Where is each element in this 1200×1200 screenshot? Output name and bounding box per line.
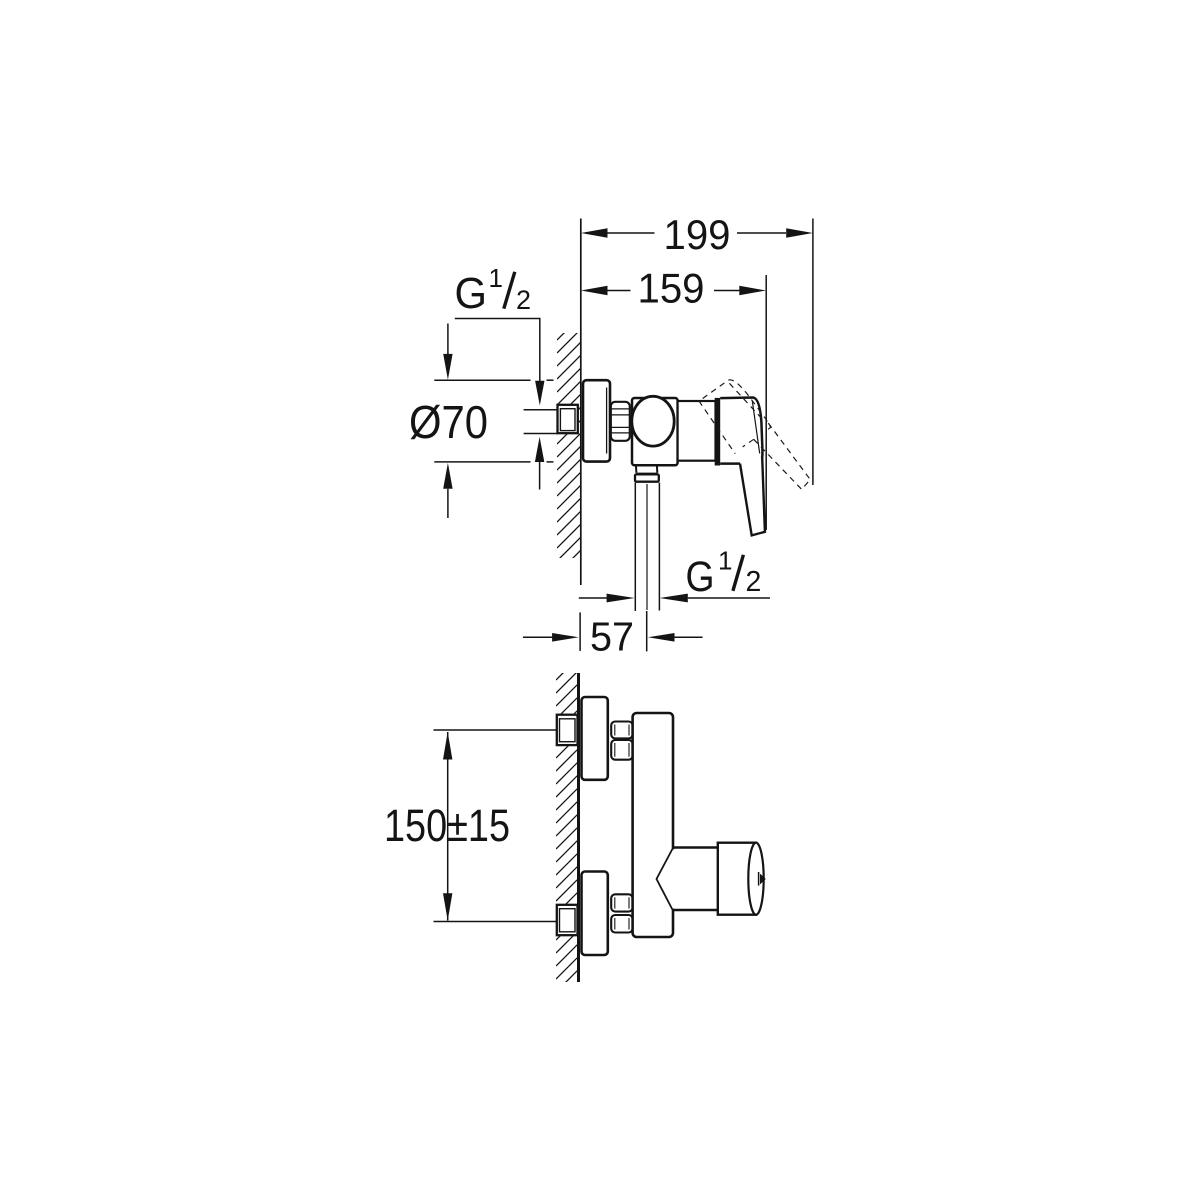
outlet pipe (G1/2 shower hose connection) [634, 483, 636, 611]
dimension 150±15 line [447, 732, 449, 921]
G1/2 arrow up [535, 437, 544, 462]
Ø70 bottom leader line [434, 461, 530, 463]
wall line (bottom view) [577, 673, 580, 982]
wall hatching (bottom view) [556, 659, 577, 1018]
Ø70 top leader line [434, 379, 530, 381]
dimension 199 extension line [812, 219, 814, 486]
mixer body (front) [633, 713, 673, 937]
union nut top facet lines [615, 725, 629, 757]
supply square fitting top [557, 715, 578, 745]
Ø70 lower arrow line [443, 463, 452, 489]
escutcheon flange top (front) [582, 697, 608, 780]
wall line (top view) [580, 219, 582, 586]
dimension G1/2 (outlet) line left [579, 597, 607, 599]
outlet neck [635, 465, 638, 473]
svg-text:G: G [686, 553, 715, 601]
black seal ring band [715, 398, 721, 466]
supply square fitting (top view, behind wall) [558, 405, 578, 433]
dimension 199 arrow left [581, 228, 608, 238]
dimension 199 arrow right [786, 228, 813, 238]
dimension 159 extension line [765, 275, 767, 530]
dimension 57 extension lines [579, 612, 581, 651]
svg-text:57: 57 [590, 614, 634, 660]
supply square fitting bottom [557, 905, 578, 935]
union hex nut (top view) [611, 402, 630, 441]
escutcheon flange bottom (front) [582, 872, 608, 956]
handle cap cylinder (front) [718, 843, 756, 915]
G1/2 leader bracket [455, 319, 540, 382]
ball joint [632, 396, 674, 446]
svg-text:159: 159 [638, 265, 705, 312]
union nut top (front) [611, 722, 632, 760]
dimension 150±15 extension lines [434, 729, 558, 731]
outlet collar nut [635, 474, 659, 481]
handle cap (top view) [720, 398, 762, 464]
svg-text:2: 2 [516, 285, 531, 315]
svg-text:199: 199 [664, 211, 731, 258]
wall hatching (top view) [557, 317, 581, 601]
body opening at neck [670, 849, 679, 908]
union nut bottom (front) [611, 894, 632, 932]
G1/2 arrow down [535, 381, 544, 406]
svg-text:2: 2 [746, 566, 762, 598]
dimension G1/2 (outlet) line right [660, 594, 688, 603]
ghost handle (open position, dashed) [699, 374, 812, 509]
svg-text:1: 1 [718, 545, 732, 575]
dimension 199 line [607, 232, 655, 234]
svg-text:150±15: 150±15 [384, 800, 510, 851]
lever marker on end face [758, 872, 760, 886]
cartridge neck (front) [673, 848, 718, 911]
dimension 159 arrow right [739, 286, 766, 296]
Ø70 upper arrow line [447, 324, 449, 355]
union nut bottom facet lines [615, 897, 629, 929]
wall escutcheon flange (top view) [583, 380, 610, 461]
svg-text:G: G [455, 269, 488, 318]
dimension 159 arrow left [581, 286, 608, 296]
handle lever (closed position) [740, 458, 765, 536]
svg-text:Ø70: Ø70 [409, 396, 488, 448]
G1/2 lower tail [539, 462, 541, 490]
dimension 57 line [523, 636, 553, 638]
svg-text:1: 1 [489, 263, 503, 293]
cartridge housing section [678, 401, 716, 461]
cone transition chevron [657, 849, 673, 910]
dimension 159 line [607, 290, 631, 292]
supply pipe stub (behind wall) [524, 409, 558, 411]
mixer body (top view) [632, 398, 678, 465]
handle cap end face ellipse [748, 843, 763, 915]
